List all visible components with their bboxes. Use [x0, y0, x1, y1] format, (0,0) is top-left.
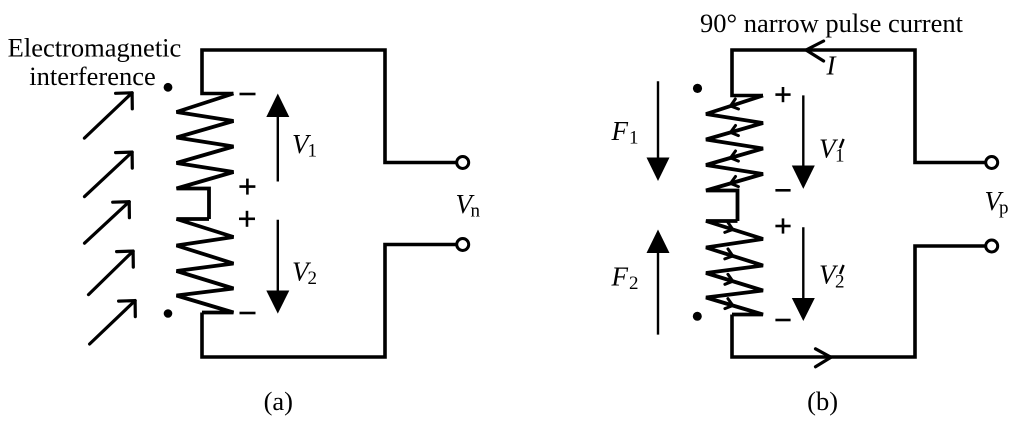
- polarity minus (bottom of L2): [240, 312, 256, 315]
- svg-text:1: 1: [835, 146, 845, 167]
- wire: figure (a) upper loop, top wire and right vertical to upper terminal: [202, 50, 456, 163]
- arrow F2 (points up): [657, 253, 659, 335]
- svg-text:2: 2: [835, 272, 845, 293]
- wire: figure (a) lower lead, right vertical and bottom wire: [202, 245, 456, 358]
- svg-text:2: 2: [308, 268, 318, 289]
- coil L1' (upper winding, figure b): [706, 96, 763, 222]
- node dot bottom-left of coil L2: [164, 309, 173, 318]
- wire: figure (b) lower lead, right vertical and bottom wire: [732, 246, 985, 357]
- winding arrow head L1' seg 2: [731, 126, 739, 136]
- terminal circle lower (a): [457, 239, 469, 251]
- arrow V1' (points down): [802, 95, 804, 165]
- terminal circle upper (b): [986, 157, 998, 169]
- terminal circle lower (b): [986, 240, 998, 252]
- winding arrow head L1' seg 1: [731, 99, 739, 109]
- polarity plus (top of L2'): [775, 225, 790, 228]
- node dot top-left of coil L1: [164, 83, 173, 92]
- arrow F1 (points down): [657, 81, 659, 157]
- svg-text:2: 2: [629, 273, 639, 294]
- current arrow I on top wire (points left): [806, 41, 824, 61]
- coil L2' (lower winding, figure b): [706, 221, 763, 315]
- EMI arrow 1: [84, 93, 132, 138]
- svg-text:F: F: [611, 262, 629, 292]
- winding arrow head L2' seg 1: [725, 223, 733, 233]
- EMI arrow 2: [85, 152, 133, 197]
- polarity minus (top of L1): [240, 93, 256, 96]
- coil L2 (lower winding, figure a): [177, 219, 234, 313]
- polarity minus (bottom of L1'): [775, 189, 790, 192]
- svg-text:(a): (a): [264, 386, 293, 416]
- polarity plus (top of L1'): [775, 93, 790, 96]
- svg-text:F: F: [611, 116, 629, 146]
- arrow V1 (points up): [277, 117, 279, 182]
- svg-text:p: p: [999, 198, 1009, 219]
- terminal circle upper (a): [457, 157, 469, 169]
- coil L1 (upper winding, figure a): [177, 94, 234, 220]
- EMI arrow 5: [90, 301, 136, 344]
- polarity minus (bottom of L2'): [775, 319, 790, 322]
- polarity plus (bottom of L1): [239, 185, 255, 188]
- winding arrow head L1' seg 4: [731, 177, 739, 187]
- svg-text:90° narrow pulse current: 90° narrow pulse current: [700, 8, 964, 38]
- svg-text:1: 1: [629, 128, 639, 149]
- svg-text:(b): (b): [807, 386, 838, 416]
- svg-text:interference: interference: [29, 61, 156, 91]
- node dot top-left of coil L1': [693, 84, 702, 93]
- winding arrow head L2' seg 3: [725, 274, 733, 284]
- winding arrow head L2' seg 2: [725, 249, 733, 259]
- svg-text:1: 1: [308, 141, 318, 162]
- winding arrow head L1' seg 3: [731, 151, 739, 161]
- polarity plus (top of L2): [239, 218, 255, 221]
- current arrow on bottom wire (points right): [816, 349, 832, 367]
- arrow V2 (points down): [277, 220, 279, 291]
- EMI arrow 4: [89, 251, 134, 295]
- svg-text:I: I: [826, 51, 838, 81]
- node dot bottom-left of coil L2': [693, 312, 702, 321]
- wire: figure (b) upper loop, top wire and right vertical to upper terminal: [732, 50, 985, 163]
- EMI arrow 3: [85, 202, 130, 244]
- svg-text:n: n: [471, 201, 481, 222]
- svg-text:Electromagnetic: Electromagnetic: [8, 33, 182, 63]
- winding arrow head L2' seg 4: [725, 299, 733, 309]
- arrow V2' (points down): [802, 227, 804, 298]
